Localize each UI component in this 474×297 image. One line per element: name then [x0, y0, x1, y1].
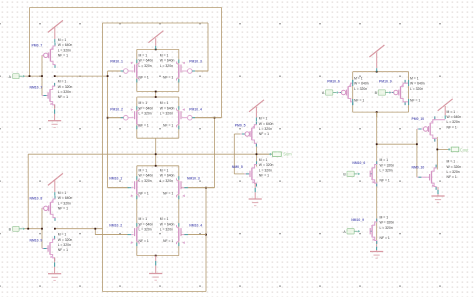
svg-text:M = 1: M = 1 [139, 169, 148, 173]
svg-text:NF = 1: NF = 1 [163, 192, 173, 196]
svg-text:M = 1: M = 1 [447, 160, 456, 164]
svg-text:W = 320n: W = 320n [380, 221, 395, 225]
svg-text:NF = 1: NF = 1 [447, 125, 457, 129]
svg-text:L = 320n: L = 320n [160, 228, 173, 232]
svg-text:W = 320n: W = 320n [58, 238, 73, 242]
svg-text:NM10_3: NM10_3 [187, 176, 200, 180]
svg-text:L = 320n: L = 320n [447, 120, 460, 124]
svg-text:NF = 1: NF = 1 [259, 132, 269, 136]
svg-text:Cout: Cout [460, 148, 470, 153]
svg-text:NF = 1: NF = 1 [163, 76, 173, 80]
svg-text:NF = 1: NF = 1 [139, 76, 149, 80]
svg-text:NM0_5: NM0_5 [232, 165, 243, 169]
svg-text:W = 320n: W = 320n [447, 165, 462, 169]
svg-text:L = 320n: L = 320n [139, 179, 152, 183]
svg-text:NF = 1: NF = 1 [58, 95, 68, 99]
svg-text:Sum: Sum [283, 152, 292, 157]
svg-text:W = 640n: W = 640n [139, 59, 154, 63]
svg-text:NM0_10: NM0_10 [412, 165, 425, 169]
svg-text:PM10_1: PM10_1 [110, 59, 123, 63]
svg-text:L = 320n: L = 320n [160, 112, 173, 116]
svg-text:W = 640n: W = 640n [139, 106, 154, 110]
svg-text:L = 320n: L = 320n [410, 87, 423, 91]
svg-text:L = 320n: L = 320n [139, 112, 152, 116]
svg-text:W = 640n: W = 640n [58, 196, 73, 200]
svg-text:M = 1: M = 1 [410, 77, 419, 81]
svg-text:NF = 1: NF = 1 [163, 123, 173, 127]
svg-text:PM10_3: PM10_3 [189, 59, 202, 63]
svg-text:NM10_8: NM10_8 [30, 197, 43, 201]
svg-text:NF = 1: NF = 1 [163, 239, 173, 243]
svg-text:PM0_10: PM0_10 [412, 117, 425, 121]
svg-text:W = 640n: W = 640n [160, 106, 175, 110]
svg-text:L = 320n: L = 320n [58, 90, 71, 94]
svg-text:NF = 1: NF = 1 [380, 236, 390, 240]
svg-text:PM10_2: PM10_2 [110, 108, 123, 112]
svg-text:L = 320n: L = 320n [139, 228, 152, 232]
svg-text:NF = 1: NF = 1 [354, 99, 364, 103]
svg-text:W = 640n: W = 640n [410, 82, 425, 86]
svg-text:L = 320n: L = 320n [354, 87, 367, 91]
svg-text:L = 320n: L = 320n [139, 64, 152, 68]
svg-text:W = 640n: W = 640n [160, 222, 175, 226]
svg-text:L = 320n: L = 320n [380, 169, 393, 173]
svg-text:W = 640n: W = 640n [447, 115, 462, 119]
svg-text:NF = 1: NF = 1 [447, 175, 457, 179]
svg-text:NM10_9: NM10_9 [351, 218, 364, 222]
svg-text:M = 1: M = 1 [58, 191, 67, 195]
svg-text:NF = 1: NF = 1 [58, 53, 68, 57]
svg-text:NF = 1: NF = 1 [410, 99, 420, 103]
svg-text:W = 640n: W = 640n [139, 222, 154, 226]
svg-text:W = 320n: W = 320n [58, 85, 73, 89]
svg-text:NF = 1: NF = 1 [380, 179, 390, 183]
svg-text:M = 1: M = 1 [58, 233, 67, 237]
svg-text:NM10_1: NM10_1 [109, 176, 122, 180]
svg-text:PM0_5: PM0_5 [235, 123, 246, 127]
svg-text:M = 1: M = 1 [139, 101, 148, 105]
svg-text:L = 320n: L = 320n [160, 64, 173, 68]
svg-text:M = 1: M = 1 [139, 217, 148, 221]
svg-text:W = 320n: W = 320n [380, 163, 395, 167]
svg-text:L = 320n: L = 320n [259, 168, 272, 172]
svg-text:M = 1: M = 1 [259, 158, 268, 162]
svg-text:L = 320n: L = 320n [58, 243, 71, 247]
svg-text:W = 640n: W = 640n [58, 43, 73, 47]
svg-text:W = 640n: W = 640n [160, 174, 175, 178]
svg-text:PM10_9: PM10_9 [379, 79, 392, 83]
svg-text:L = 320n: L = 320n [160, 179, 173, 183]
svg-text:M = 1: M = 1 [160, 54, 169, 58]
svg-text:NM10_7: NM10_7 [30, 86, 43, 90]
svg-text:M = 1: M = 1 [354, 77, 363, 81]
svg-text:M = 1: M = 1 [58, 38, 67, 42]
svg-text:NF = 1: NF = 1 [139, 239, 149, 243]
svg-text:NF = 1: NF = 1 [259, 173, 269, 177]
svg-text:L = 320n: L = 320n [58, 201, 71, 205]
svg-text:M = 1: M = 1 [160, 101, 169, 105]
svg-text:NM10_9: NM10_9 [30, 239, 43, 243]
svg-text:NF = 1: NF = 1 [139, 192, 149, 196]
svg-text:M = 1: M = 1 [139, 54, 148, 58]
svg-text:PM10_6: PM10_6 [327, 79, 340, 83]
svg-text:M = 1: M = 1 [380, 158, 389, 162]
svg-text:NF = 1: NF = 1 [58, 248, 68, 252]
svg-text:NM10_6: NM10_6 [352, 161, 365, 165]
svg-text:M = 1: M = 1 [160, 169, 169, 173]
svg-text:M = 1: M = 1 [447, 110, 456, 114]
svg-text:L = 320n: L = 320n [58, 48, 71, 52]
svg-text:W = 640n: W = 640n [139, 174, 154, 178]
svg-text:L = 320n: L = 320n [447, 170, 460, 174]
svg-text:NF = 1: NF = 1 [58, 206, 68, 210]
svg-text:NF = 1: NF = 1 [139, 123, 149, 127]
svg-text:PM10_4: PM10_4 [189, 108, 202, 112]
svg-text:W = 640n: W = 640n [354, 82, 369, 86]
svg-text:M = 1: M = 1 [160, 217, 169, 221]
svg-text:W = 640n: W = 640n [259, 122, 274, 126]
svg-text:NM10_2: NM10_2 [109, 223, 122, 227]
svg-text:NM10_4: NM10_4 [189, 223, 202, 227]
svg-text:L = 320n: L = 320n [380, 226, 393, 230]
svg-text:M = 1: M = 1 [58, 80, 67, 84]
svg-text:L = 320n: L = 320n [259, 127, 272, 131]
svg-text:M = 1: M = 1 [259, 117, 268, 121]
svg-text:M = 1: M = 1 [380, 216, 389, 220]
svg-text:W = 320n: W = 320n [259, 163, 274, 167]
svg-text:W = 640n: W = 640n [160, 59, 175, 63]
svg-text:PM0_7: PM0_7 [32, 44, 43, 48]
